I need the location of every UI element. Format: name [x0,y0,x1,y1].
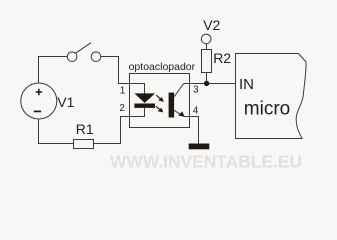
light arrow 1 [156,95,164,102]
wire left rail bottom and bottom rail to R1 [39,119,74,144]
LED anode wire inside box [130,84,145,94]
ground [189,144,210,150]
voltage source V1 [21,83,57,119]
wire pin 3 to micro box IN node [184,83,236,85]
svg-text:V1: V1 [57,94,74,110]
wire V2 terminal to R2 top [206,44,208,50]
svg-text:IN: IN [239,76,254,93]
LED cathode bar [134,104,155,108]
V2 terminal circle [201,34,211,44]
svg-text:R2: R2 [213,50,231,66]
svg-text:optoaclopador: optoaclopador [129,61,196,73]
resistor R2 [202,50,212,73]
junction node dot [204,81,209,86]
V1 minus sign [34,110,41,112]
phototransistor collector wire [174,84,184,97]
wire R2 bottom to junction [206,73,208,84]
svg-text:R1: R1 [76,121,94,137]
wire switch right to pin 1 [101,57,130,84]
svg-text:3: 3 [193,84,199,95]
switch pole circle right [91,52,101,62]
micro block [236,54,307,139]
phototransistor emitter arrowhead [178,111,184,117]
LED triangle [134,93,155,103]
switch S1 [67,43,101,62]
svg-text:1: 1 [120,86,126,97]
wire R1 right to pin 2 [94,117,130,144]
svg-text:micro: micro [244,99,290,120]
LED cathode wire to pin 2 [130,108,145,117]
wire left rail top and top wire to switch [39,57,68,84]
light arrow 2 [156,106,163,112]
wire pin 4 emitter to ground [184,117,199,144]
svg-text:2: 2 [119,103,125,114]
optocoupler U1 box [130,74,190,128]
svg-text:V2: V2 [203,17,220,33]
phototransistor Q1 base bar [169,93,175,118]
resistor R1 [74,140,94,149]
svg-text:WWW.INVENTABLE.EU: WWW.INVENTABLE.EU [110,152,302,172]
switch pole circle left [67,52,77,62]
V1 plus sign [36,89,43,95]
svg-text:4: 4 [193,105,199,116]
switch lever [76,43,91,53]
phototransistor emitter wire [174,110,182,115]
wires [39,44,236,144]
